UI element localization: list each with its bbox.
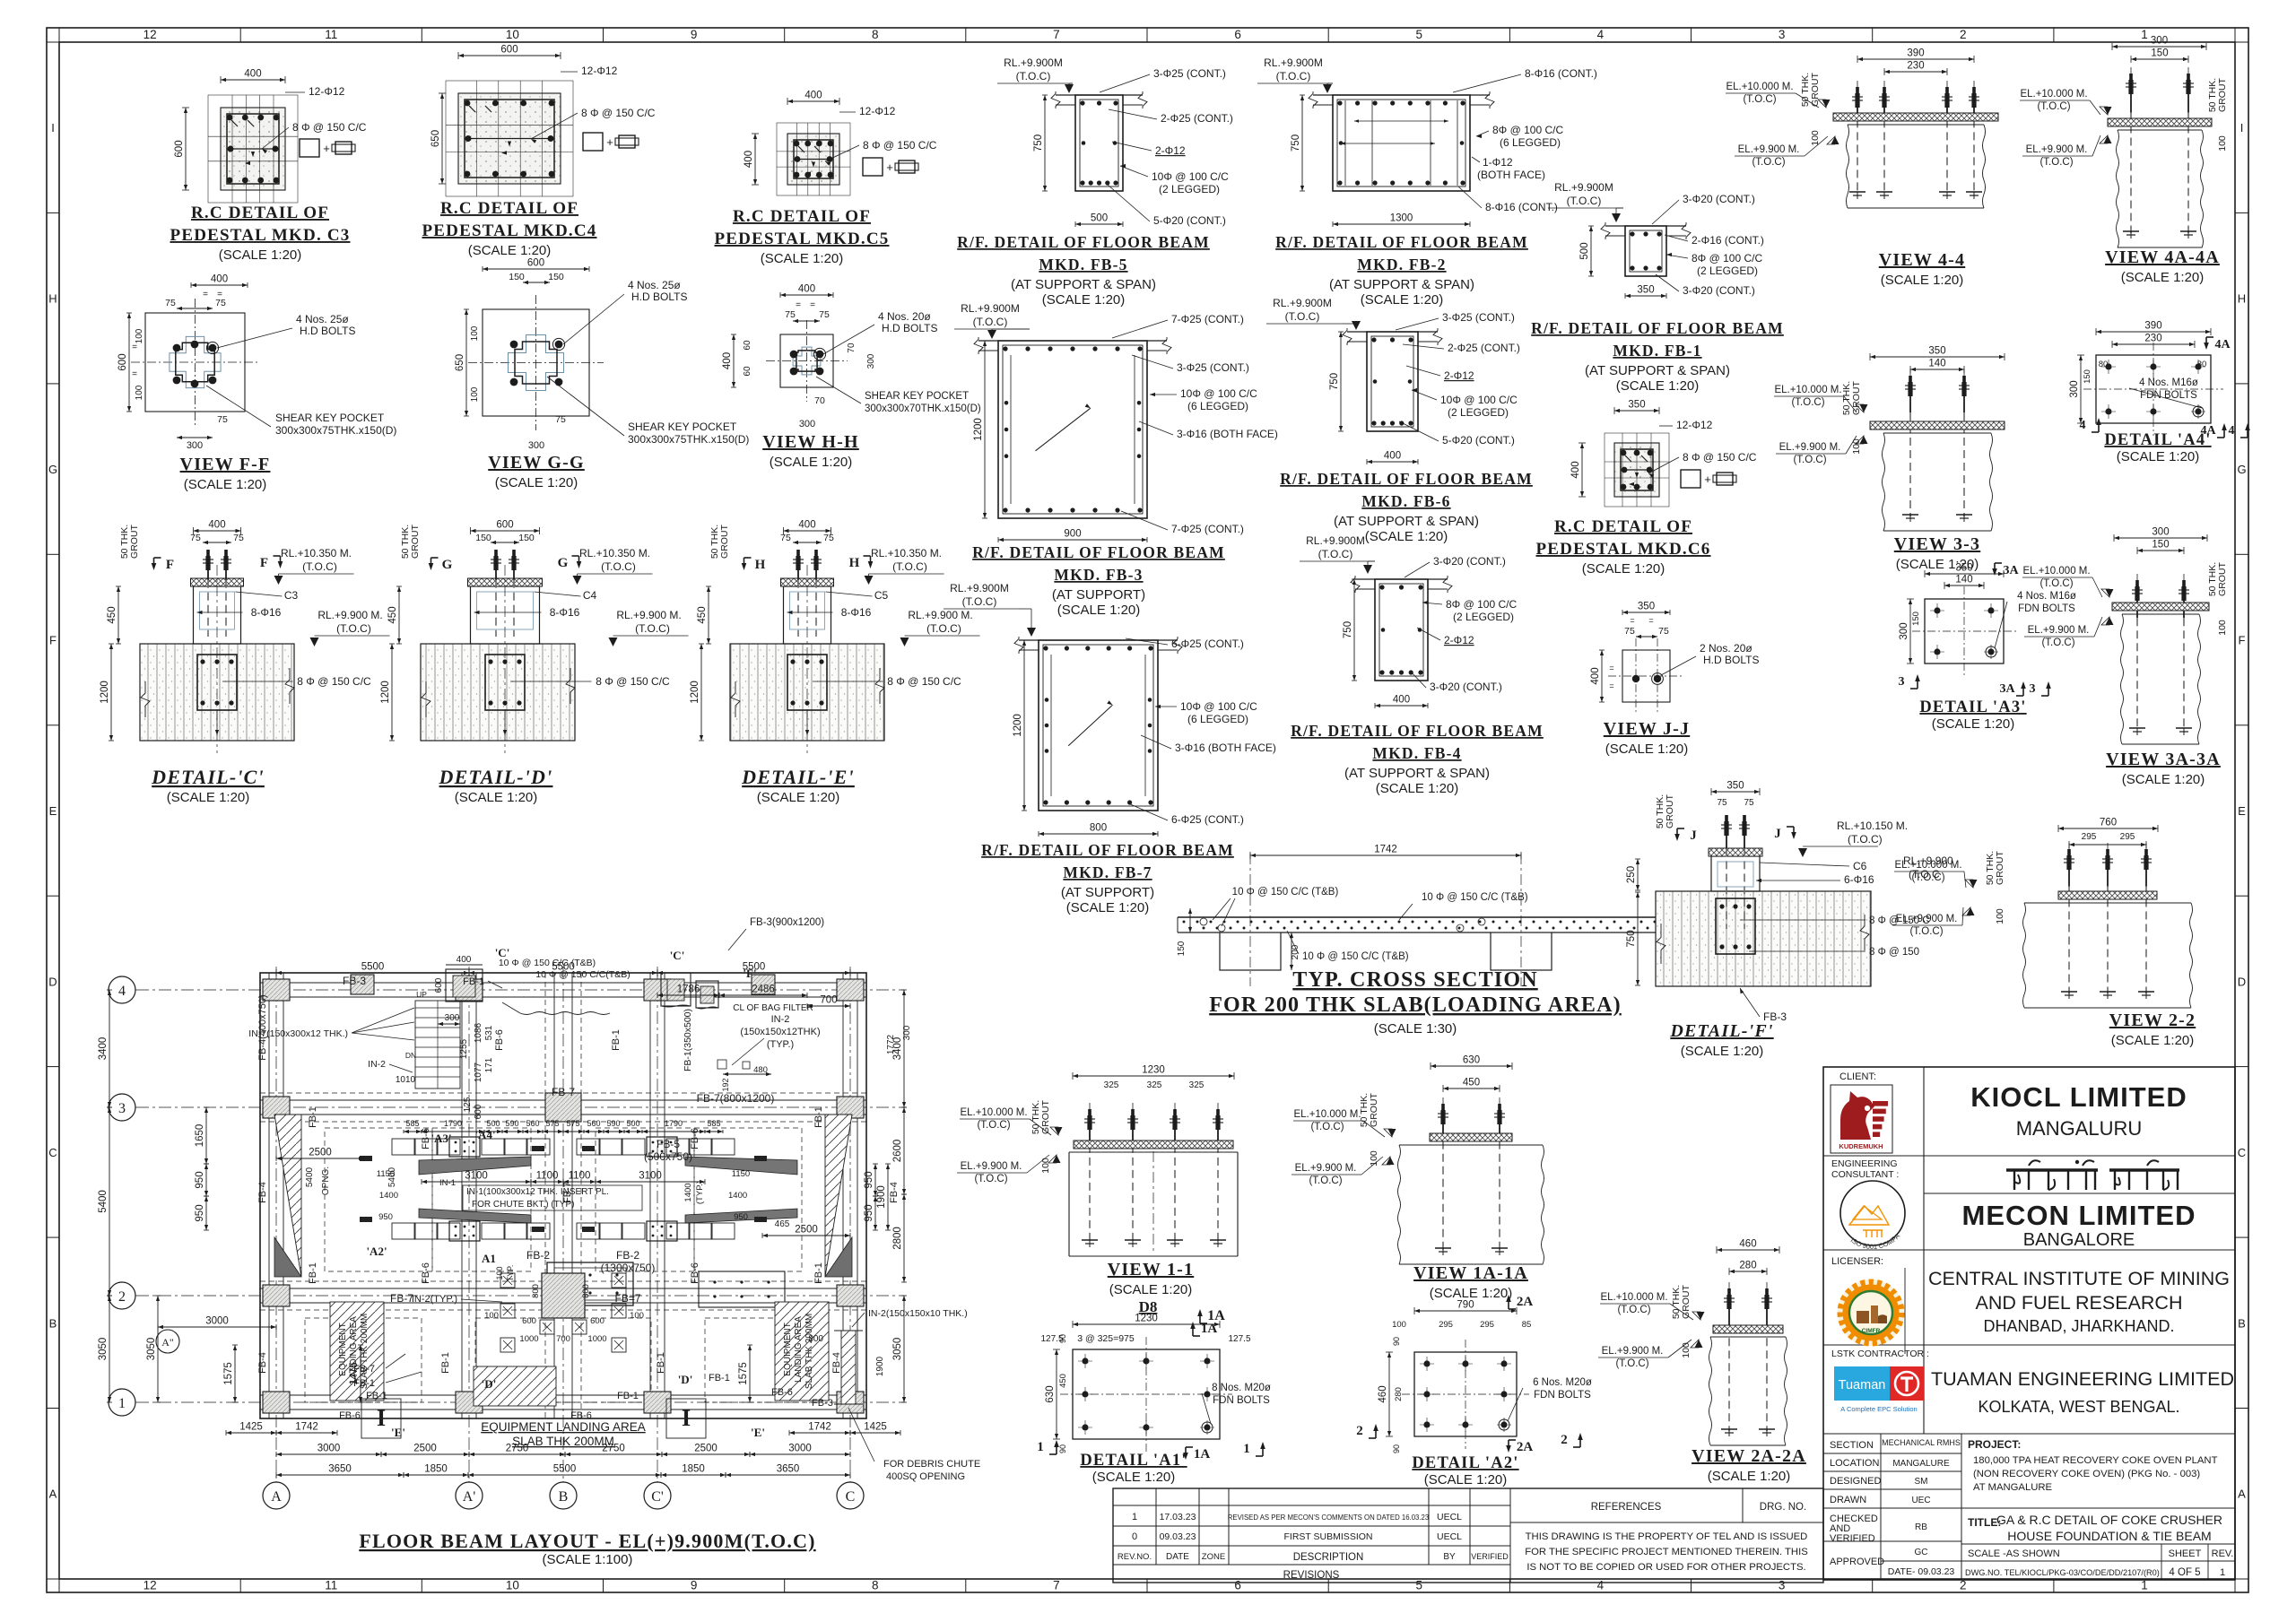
svg-text:0: 0 <box>1132 1531 1137 1542</box>
svg-text:IN-2: IN-2 <box>771 1014 790 1025</box>
svg-text:OPNG.: OPNG. <box>321 1167 331 1195</box>
svg-text:TUAMAN ENGINEERING LIMITED: TUAMAN ENGINEERING LIMITED <box>1931 1368 2234 1390</box>
svg-text:(T.O.C): (T.O.C) <box>1752 157 1785 168</box>
svg-text:280: 280 <box>1739 1261 1756 1271</box>
svg-text:DETAIL 'A1': DETAIL 'A1' <box>1080 1452 1187 1470</box>
svg-text:E: E <box>49 804 57 818</box>
svg-text:1850: 1850 <box>682 1464 705 1475</box>
svg-text:1425: 1425 <box>864 1422 887 1433</box>
svg-text:300: 300 <box>187 440 203 451</box>
svg-text:90: 90 <box>1392 1444 1401 1453</box>
svg-text:(1300x750): (1300x750) <box>601 1262 656 1274</box>
svg-text:FB-1: FB-1 <box>813 1106 824 1128</box>
svg-text:FDN BOLTS: FDN BOLTS <box>1534 1390 1591 1401</box>
svg-text:2486: 2486 <box>752 984 775 995</box>
svg-text:1400: 1400 <box>683 1183 693 1201</box>
svg-text:500: 500 <box>626 1119 639 1128</box>
svg-text:VIEW 1-1: VIEW 1-1 <box>1108 1260 1194 1279</box>
plan stair <box>415 1001 460 1089</box>
svg-text:100: 100 <box>2217 620 2228 636</box>
svg-text:FB-7: FB-7 <box>390 1292 413 1305</box>
svg-text:FB-6: FB-6 <box>570 1410 592 1421</box>
svg-text:400: 400 <box>1590 667 1601 684</box>
svg-text:3: 3 <box>1779 1579 1786 1592</box>
svg-text:MECHANICAL RMHS: MECHANICAL RMHS <box>1882 1438 1961 1447</box>
svg-text:6 Nos. M20ø: 6 Nos. M20ø <box>1533 1377 1592 1388</box>
svg-text:150: 150 <box>518 533 535 543</box>
svg-text:4: 4 <box>2080 419 2086 432</box>
svg-text:100: 100 <box>2217 135 2228 152</box>
svg-text:A': A' <box>463 1489 476 1505</box>
svg-text:(AT SUPPORT & SPAN): (AT SUPPORT & SPAN) <box>1334 514 1479 529</box>
svg-text:4: 4 <box>1597 1579 1605 1592</box>
svg-text:171: 171 <box>484 1057 494 1072</box>
svg-text:C6: C6 <box>1853 860 1867 872</box>
svg-text:10Φ @ 100 C/C: 10Φ @ 100 C/C <box>1180 387 1257 400</box>
svg-text:127.5: 127.5 <box>1228 1334 1250 1344</box>
svg-text:1-Φ12: 1-Φ12 <box>1483 156 1513 169</box>
view 3A-3A anchor elevation <box>2114 537 2207 539</box>
svg-text:450: 450 <box>1463 1078 1480 1089</box>
svg-text:2-Φ12: 2-Φ12 <box>1444 369 1474 382</box>
svg-text:(T.O.C): (T.O.C) <box>635 622 670 635</box>
svg-text:EL.+10.000 M.: EL.+10.000 M. <box>1293 1109 1361 1120</box>
svg-text:10 Φ @ 150 C/C (T&B): 10 Φ @ 150 C/C (T&B) <box>1232 887 1339 898</box>
svg-text:FOR CHUTE BKT.) (TYP): FOR CHUTE BKT.) (TYP) <box>472 1200 574 1210</box>
svg-text:100: 100 <box>1995 908 2005 924</box>
svg-text:2A: 2A <box>1517 1440 1534 1454</box>
svg-text:1200: 1200 <box>690 681 700 704</box>
svg-text:(T.O.C): (T.O.C) <box>974 1174 1007 1184</box>
svg-text:8Φ @ 100 C/C: 8Φ @ 100 C/C <box>1446 598 1517 611</box>
svg-text:400: 400 <box>722 352 733 369</box>
svg-text:ENGINEERING: ENGINEERING <box>1831 1158 1898 1169</box>
view 3-3 anchor elevation <box>1870 356 2005 358</box>
svg-text:EL.+9.900 M.: EL.+9.900 M. <box>1295 1163 1357 1174</box>
svg-text:1077: 1077 <box>474 1062 483 1082</box>
svg-text:FB-1: FB-1 <box>611 1029 622 1051</box>
svg-text:'E': 'E' <box>391 1426 405 1439</box>
MECON hindi name <box>2006 1168 2098 1171</box>
svg-text:A Complete EPC Solution: A Complete EPC Solution <box>1840 1405 1917 1413</box>
svg-text:RL.+9.900M: RL.+9.900M <box>950 582 1009 594</box>
svg-text:(2 LEGGED): (2 LEGGED) <box>1448 406 1509 419</box>
svg-text:12-Φ12: 12-Φ12 <box>309 85 345 98</box>
grid bubbles <box>109 976 135 1003</box>
svg-text:PEDESTAL MKD.C5: PEDESTAL MKD.C5 <box>714 230 889 248</box>
svg-text:(SCALE 1:20): (SCALE 1:20) <box>1057 603 1141 618</box>
svg-text:REVISED AS PER MECON'S COMMENT: REVISED AS PER MECON'S COMMENTS ON DATED… <box>1228 1514 1429 1522</box>
svg-text:9: 9 <box>691 1579 698 1592</box>
svg-text:150: 150 <box>475 533 491 543</box>
svg-text:I: I <box>2240 121 2244 134</box>
svg-text:A: A <box>49 1488 57 1501</box>
svg-text:90: 90 <box>1058 1334 1067 1343</box>
svg-text:140: 140 <box>1955 575 1972 585</box>
svg-text:(SCALE 1:20): (SCALE 1:20) <box>184 477 267 492</box>
svg-text:325: 325 <box>1104 1080 1119 1090</box>
svg-text:CLIENT:: CLIENT: <box>1839 1071 1876 1082</box>
svg-text:750: 750 <box>1343 621 1353 638</box>
svg-text:2750: 2750 <box>602 1444 625 1454</box>
svg-text:1: 1 <box>1243 1442 1250 1456</box>
svg-text:(SCALE 1:20): (SCALE 1:20) <box>1430 1286 1513 1301</box>
svg-text:(SCALE 1:20): (SCALE 1:20) <box>770 455 853 470</box>
svg-text:700: 700 <box>820 995 837 1006</box>
svg-text:75: 75 <box>785 309 796 320</box>
svg-text:(2 LEGGED): (2 LEGGED) <box>1159 183 1220 195</box>
svg-text:(AT SUPPORT & SPAN): (AT SUPPORT & SPAN) <box>1585 363 1730 378</box>
svg-text:480: 480 <box>753 1065 768 1075</box>
svg-text:450: 450 <box>387 606 398 623</box>
svg-text:FB-4: FB-4 <box>257 1182 268 1203</box>
svg-text:C5: C5 <box>874 589 889 602</box>
svg-text:2800: 2800 <box>892 1227 903 1250</box>
svg-text:A: A <box>271 1489 282 1505</box>
plan side hatched triangles <box>274 1115 301 1277</box>
svg-text:400SQ OPENING: 400SQ OPENING <box>886 1471 965 1482</box>
svg-text:8Φ @ 100 C/C: 8Φ @ 100 C/C <box>1692 252 1762 265</box>
svg-text:MKD. FB-3: MKD. FB-3 <box>1054 566 1143 584</box>
plan I-beam markers <box>361 1399 401 1438</box>
svg-text:12-Φ12: 12-Φ12 <box>1676 419 1713 431</box>
svg-text:300: 300 <box>445 1013 460 1023</box>
svg-text:DWG.NO. TEL/KIOCL/PKG-03/CO/DE: DWG.NO. TEL/KIOCL/PKG-03/CO/DE/DD/2107/(… <box>1965 1568 2160 1577</box>
svg-text:3A: 3A <box>2003 564 2019 577</box>
svg-text:140: 140 <box>1928 359 1945 369</box>
svg-text:(T.O.C): (T.O.C) <box>1276 70 1311 82</box>
detail E pedestal on beam <box>730 644 884 741</box>
svg-text:5400: 5400 <box>98 1190 109 1213</box>
svg-text:(AT SUPPORT): (AT SUPPORT) <box>1061 885 1154 900</box>
svg-text:230: 230 <box>2144 334 2161 344</box>
svg-text:300x300x75THK.x150(D): 300x300x75THK.x150(D) <box>275 424 396 437</box>
svg-text:UP: UP <box>416 990 427 999</box>
svg-text:300: 300 <box>902 1025 912 1040</box>
svg-text:75: 75 <box>1624 626 1635 637</box>
svg-text:EL.+9.900 M.: EL.+9.900 M. <box>961 1161 1022 1172</box>
svg-text:100: 100 <box>1040 1158 1051 1174</box>
svg-text:950: 950 <box>195 1171 205 1188</box>
svg-text:75: 75 <box>1744 798 1754 808</box>
svg-text:H: H <box>755 558 766 572</box>
svg-text:PEDESTAL MKD.C6: PEDESTAL MKD.C6 <box>1535 540 1710 559</box>
svg-text:1230: 1230 <box>1142 1065 1165 1076</box>
svg-text:3-Φ16 (BOTH FACE): 3-Φ16 (BOTH FACE) <box>1175 742 1276 754</box>
svg-text:5: 5 <box>1416 28 1423 41</box>
svg-text:B: B <box>49 1316 57 1330</box>
svg-text:10 Φ @ 150 C/C (T&B): 10 Φ @ 150 C/C (T&B) <box>499 958 596 968</box>
svg-text:RL.+9.900M: RL.+9.900M <box>1264 56 1323 69</box>
svg-text:VIEW 2A-2A: VIEW 2A-2A <box>1692 1446 1806 1466</box>
pedestal C6 detail <box>1614 443 1659 497</box>
svg-text:=: = <box>132 369 137 379</box>
svg-text:RL.+10.150 M.: RL.+10.150 M. <box>1837 820 1908 832</box>
detail D pedestal on beam <box>421 644 575 741</box>
svg-text:350: 350 <box>1628 400 1645 411</box>
detail A4 foundation bolt plan <box>2096 355 2211 423</box>
svg-text:4 Nos. 25ø: 4 Nos. 25ø <box>296 313 349 325</box>
svg-text:FB-1(350x500): FB-1(350x500) <box>683 1009 693 1071</box>
svg-text:EL.+9.900 M.: EL.+9.900 M. <box>2028 625 2090 636</box>
svg-text:(SCALE 1:20): (SCALE 1:20) <box>495 475 578 490</box>
svg-text:2500: 2500 <box>795 1225 818 1236</box>
svg-text:150: 150 <box>1911 612 1921 626</box>
svg-text:3: 3 <box>1779 28 1786 41</box>
svg-text:FB-1: FB-1 <box>463 976 484 987</box>
svg-text:FB-2: FB-2 <box>616 1249 639 1262</box>
svg-text:I: I <box>51 121 55 134</box>
svg-text:GROUT: GROUT <box>1995 850 2005 885</box>
svg-text:295: 295 <box>1480 1320 1494 1330</box>
view 4A-4A anchor elevation <box>2112 46 2206 48</box>
svg-text:1: 1 <box>1132 1512 1137 1522</box>
svg-text:10: 10 <box>506 1579 519 1592</box>
svg-text:4 OF 5: 4 OF 5 <box>2169 1567 2200 1578</box>
svg-text:TYP.: TYP. <box>506 1265 515 1282</box>
svg-text:295: 295 <box>2082 832 2097 842</box>
svg-text:(T.O.C): (T.O.C) <box>1909 926 1943 937</box>
svg-text:3A: 3A <box>1999 682 2015 696</box>
svg-text:=: = <box>1630 616 1634 625</box>
svg-text:4: 4 <box>118 984 126 999</box>
svg-text:300: 300 <box>528 440 544 451</box>
svg-text:GC: GC <box>1915 1548 1928 1557</box>
svg-text:SHEAR KEY POCKET: SHEAR KEY POCKET <box>275 412 385 424</box>
svg-text:(SCALE 1:20): (SCALE 1:20) <box>455 790 538 805</box>
svg-text:DESIGNED: DESIGNED <box>1830 1476 1882 1487</box>
svg-text:3100: 3100 <box>465 1171 488 1182</box>
svg-text:400: 400 <box>1384 451 1401 462</box>
svg-text:DETAIL-'E': DETAIL-'E' <box>741 766 855 788</box>
svg-text:300x300x70THK.x150(D): 300x300x70THK.x150(D) <box>865 403 981 414</box>
svg-text:575: 575 <box>566 1119 579 1128</box>
svg-text:Tuaman: Tuaman <box>1839 1378 1886 1392</box>
svg-text:C: C <box>2238 1146 2246 1159</box>
svg-text:(SCALE 1:20): (SCALE 1:20) <box>2122 772 2205 787</box>
svg-text:I: I <box>377 1405 386 1431</box>
svg-text:(T.O.C): (T.O.C) <box>601 560 636 573</box>
svg-text:FB-1: FB-1 <box>353 1378 375 1389</box>
svg-text:630: 630 <box>1463 1055 1480 1066</box>
svg-text:'D': 'D' <box>482 1377 497 1391</box>
svg-text:(T.O.C): (T.O.C) <box>1567 195 1602 207</box>
svg-text:950: 950 <box>864 1171 874 1188</box>
svg-text:(SCALE 1:30): (SCALE 1:30) <box>1374 1021 1457 1037</box>
svg-text:GROUT: GROUT <box>719 524 730 559</box>
svg-text:17.03.23: 17.03.23 <box>1160 1512 1196 1522</box>
svg-text:950: 950 <box>378 1212 393 1222</box>
svg-text:EL.+9.900 M.: EL.+9.900 M. <box>1602 1346 1664 1357</box>
svg-text:FB-7(800x1200): FB-7(800x1200) <box>697 1092 775 1105</box>
svg-text:E: E <box>2238 804 2246 818</box>
svg-text:12-Φ12: 12-Φ12 <box>859 105 896 117</box>
svg-text:500: 500 <box>486 1119 500 1128</box>
svg-text:150: 150 <box>2152 540 2169 551</box>
svg-text:J: J <box>1774 827 1781 841</box>
svg-text:IN-2(150x150x10 THK.): IN-2(150x150x10 THK.) <box>868 1308 968 1319</box>
svg-text:300x300x75THK.x150(D): 300x300x75THK.x150(D) <box>628 433 749 446</box>
svg-text:1200: 1200 <box>100 681 110 704</box>
svg-text:2A: 2A <box>1517 1295 1534 1309</box>
svg-text:100: 100 <box>470 386 480 402</box>
svg-text:500: 500 <box>1091 213 1108 224</box>
svg-text:1150: 1150 <box>377 1169 395 1179</box>
svg-text:1A: 1A <box>1201 1322 1218 1336</box>
equipment landing hatched areas <box>330 1302 384 1401</box>
svg-text:(SCALE 1:20): (SCALE 1:20) <box>1361 292 1444 308</box>
svg-text:(TYP.): (TYP.) <box>767 1039 794 1050</box>
svg-text:10: 10 <box>506 28 519 41</box>
svg-text:AT MANGALURE: AT MANGALURE <box>1973 1482 2053 1493</box>
svg-text:DRAWN: DRAWN <box>1830 1495 1866 1505</box>
svg-text:3100: 3100 <box>639 1171 662 1182</box>
view 4-4 anchor elevation <box>1857 58 1974 60</box>
svg-text:(T.O.C): (T.O.C) <box>962 595 997 608</box>
svg-text:FB-1: FB-1 <box>656 1352 666 1374</box>
svg-text:5500: 5500 <box>361 962 385 973</box>
svg-text:=: = <box>203 290 208 299</box>
svg-text:2750: 2750 <box>506 1444 529 1454</box>
svg-text:+: + <box>323 142 330 155</box>
svg-text:GROUT: GROUT <box>1040 1099 1051 1134</box>
svg-text:(SCALE 1:20): (SCALE 1:20) <box>219 247 302 263</box>
svg-text:VIEW 3A-3A: VIEW 3A-3A <box>2106 750 2221 769</box>
svg-text:MKD. FB-2: MKD. FB-2 <box>1357 256 1446 273</box>
svg-text:TYP. CROSS SECTION: TYP. CROSS SECTION <box>1292 968 1537 992</box>
svg-text:3 @ 325=975: 3 @ 325=975 <box>1077 1333 1135 1344</box>
svg-text:8-Φ16 (CONT.): 8-Φ16 (CONT.) <box>1525 67 1597 80</box>
svg-text:8: 8 <box>872 1579 879 1592</box>
svg-text:FB-4: FB-4 <box>257 1352 268 1374</box>
svg-text:1: 1 <box>2141 28 2148 41</box>
svg-text:(SCALE 1:20): (SCALE 1:20) <box>167 790 250 805</box>
svg-text:75: 75 <box>780 533 791 543</box>
svg-text:11: 11 <box>325 28 337 41</box>
svg-text:GROUT: GROUT <box>1681 1284 1692 1319</box>
svg-text:100: 100 <box>1810 130 1821 146</box>
svg-text:FDN BOLTS: FDN BOLTS <box>2140 390 2197 401</box>
svg-text:200: 200 <box>1291 944 1300 959</box>
svg-text:100: 100 <box>135 328 144 343</box>
svg-text:1575: 1575 <box>223 1362 234 1385</box>
svg-text:2 Nos. 20ø: 2 Nos. 20ø <box>1700 642 1752 655</box>
svg-text:3650: 3650 <box>328 1464 352 1475</box>
svg-text:(500x750): (500x750) <box>644 1150 692 1163</box>
svg-text:(AT SUPPORT & SPAN): (AT SUPPORT & SPAN) <box>1329 277 1474 292</box>
svg-text:THIS DRAWING IS THE PROPERTY O: THIS DRAWING IS THE PROPERTY OF TEL AND … <box>1526 1531 1808 1542</box>
svg-text:3-Φ20 (CONT.): 3-Φ20 (CONT.) <box>1430 681 1502 693</box>
svg-text:12: 12 <box>143 28 157 41</box>
svg-text:UECL: UECL <box>1437 1512 1462 1522</box>
svg-text:SHEAR KEY POCKET: SHEAR KEY POCKET <box>628 421 737 433</box>
svg-text:F: F <box>166 558 174 572</box>
svg-text:RL.+9.900 M.: RL.+9.900 M. <box>908 609 972 621</box>
svg-text:1742: 1742 <box>808 1422 831 1433</box>
svg-text:(6 LEGGED): (6 LEGGED) <box>1500 136 1561 149</box>
svg-text:(SCALE 1:20): (SCALE 1:20) <box>761 251 844 266</box>
svg-text:8-Φ16: 8-Φ16 <box>251 606 282 619</box>
svg-text:MKD. FB-7: MKD. FB-7 <box>1063 863 1152 881</box>
svg-text:700: 700 <box>556 1334 570 1344</box>
svg-text:4A: 4A <box>2200 424 2216 438</box>
svg-text:RL.+9.900M: RL.+9.900M <box>961 302 1020 315</box>
svg-text:RL.+9.900M: RL.+9.900M <box>1554 181 1613 194</box>
svg-text:3-Φ25 (CONT.): 3-Φ25 (CONT.) <box>1153 67 1226 80</box>
svg-text:70: 70 <box>847 343 857 353</box>
svg-text:GROUT: GROUT <box>1369 1092 1379 1127</box>
svg-text:D: D <box>2238 975 2246 988</box>
svg-text:FB-6: FB-6 <box>421 1128 431 1149</box>
svg-text:VIEW H-H: VIEW H-H <box>762 432 859 452</box>
svg-text:RB: RB <box>1915 1522 1927 1532</box>
svg-text:4 Nos. M16ø: 4 Nos. M16ø <box>2139 377 2198 388</box>
svg-text:(T.O.C): (T.O.C) <box>2037 101 2070 112</box>
svg-text:100: 100 <box>1681 1342 1692 1358</box>
svg-text:LSTK CONTRACTOR :: LSTK CONTRACTOR : <box>1831 1349 1929 1359</box>
svg-text:BY: BY <box>1443 1552 1456 1562</box>
svg-text:H.D BOLTS: H.D BOLTS <box>1703 654 1759 666</box>
svg-text:6-Φ25 (CONT.): 6-Φ25 (CONT.) <box>1171 638 1244 650</box>
svg-text:3: 3 <box>1899 675 1905 689</box>
svg-text:1000: 1000 <box>519 1334 538 1344</box>
svg-text:1200: 1200 <box>380 681 391 704</box>
svg-text:RL.+10.350 M.: RL.+10.350 M. <box>281 547 352 559</box>
svg-text:3050: 3050 <box>146 1338 157 1361</box>
svg-text:FOR THE SPECIFIC PROJECT MENTI: FOR THE SPECIFIC PROJECT MENTIONED THERE… <box>1525 1547 1808 1557</box>
svg-text:350: 350 <box>1638 602 1655 612</box>
svg-text:500: 500 <box>1579 242 1590 259</box>
svg-text:SHEET: SHEET <box>2169 1548 2202 1559</box>
svg-text:FOR 200 THK SLAB(LOADING AREA): FOR 200 THK SLAB(LOADING AREA) <box>1209 993 1622 1017</box>
svg-text:10 Φ @ 150 C/C(T&B): 10 Φ @ 150 C/C(T&B) <box>535 969 630 980</box>
svg-text:FB-1: FB-1 <box>617 1391 639 1401</box>
svg-text:(SCALE 1:20): (SCALE 1:20) <box>1605 742 1689 757</box>
svg-text:8 Φ @ 150 C/C: 8 Φ @ 150 C/C <box>1683 451 1757 464</box>
svg-text:8 Φ @ 150 C/C: 8 Φ @ 150 C/C <box>887 675 961 688</box>
svg-text:H.D BOLTS: H.D BOLTS <box>631 291 687 303</box>
svg-text:FB-3: FB-3 <box>343 975 366 987</box>
svg-text:FB-2: FB-2 <box>526 1249 550 1262</box>
svg-text:DRG. NO.: DRG. NO. <box>1760 1502 1806 1513</box>
svg-text:1742: 1742 <box>295 1422 318 1433</box>
svg-text:1900: 1900 <box>876 1185 887 1209</box>
svg-text:750: 750 <box>1626 930 1637 947</box>
svg-text:AND FUEL RESEARCH: AND FUEL RESEARCH <box>1976 1292 2183 1314</box>
svg-text:IN-2(TYP.): IN-2(TYP.) <box>412 1294 457 1305</box>
view J-J bolt plan <box>1622 650 1670 702</box>
svg-text:100: 100 <box>1851 438 1862 455</box>
svg-text:FB-6: FB-6 <box>421 1262 431 1284</box>
svg-text:75: 75 <box>1658 626 1669 637</box>
svg-text:400: 400 <box>1570 461 1581 478</box>
svg-text:R.C DETAIL OF: R.C DETAIL OF <box>191 204 329 222</box>
svg-text:750: 750 <box>1291 134 1301 152</box>
svg-text:REFERENCES: REFERENCES <box>1591 1502 1662 1513</box>
svg-text:600: 600 <box>522 1316 536 1326</box>
svg-text:2-Φ25 (CONT.): 2-Φ25 (CONT.) <box>1161 112 1233 125</box>
svg-text:'A3': 'A3' <box>430 1132 451 1145</box>
svg-text:R/F. DETAIL OF FLOOR BEAM: R/F. DETAIL OF FLOOR BEAM <box>1280 470 1533 488</box>
svg-text:GROUT: GROUT <box>129 524 140 559</box>
svg-text:3-Φ16 (BOTH FACE): 3-Φ16 (BOTH FACE) <box>1177 428 1278 440</box>
svg-text:(T.O.C): (T.O.C) <box>1615 1358 1648 1369</box>
svg-text:75: 75 <box>823 533 834 543</box>
svg-text:RL.+9.900M: RL.+9.900M <box>1004 56 1063 69</box>
svg-text:12-Φ12: 12-Φ12 <box>581 65 618 77</box>
svg-text:FB-6: FB-6 <box>339 1410 361 1421</box>
svg-text:(SCALE 1:20): (SCALE 1:20) <box>1376 781 1459 796</box>
